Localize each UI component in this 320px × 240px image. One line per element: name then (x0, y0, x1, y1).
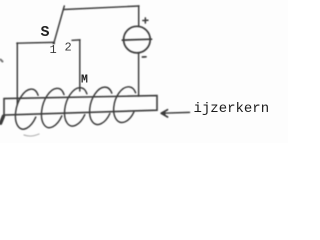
svg-text:ijzerkern: ijzerkern (194, 101, 270, 117)
svg-text:M: M (81, 74, 88, 87)
svg-text:S: S (41, 24, 50, 41)
svg-text:1: 1 (50, 43, 57, 57)
svg-text:2: 2 (65, 41, 72, 55)
